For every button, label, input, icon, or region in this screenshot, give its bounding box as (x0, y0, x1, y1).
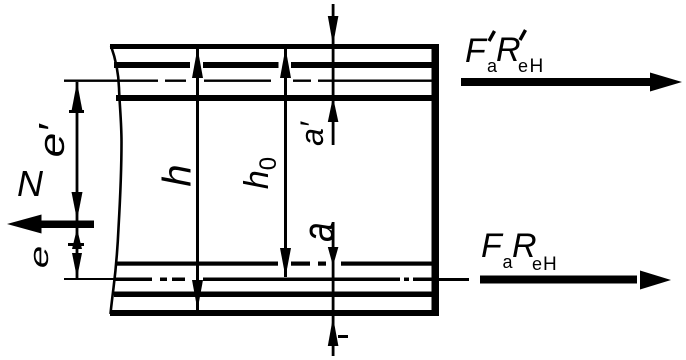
dimension h upper arrowhead (192, 48, 203, 78)
bottom reinforcement bar line 1 (64, 278, 115, 280)
beam top edge (110, 44, 439, 49)
force N application bar (42, 221, 95, 229)
dimension e/e' line (76, 82, 79, 278)
svg-text:e: e (25, 246, 54, 269)
stray tick near a arrow (338, 335, 348, 338)
e' upper arrow base tick (69, 110, 84, 113)
beam bottom edge (110, 310, 439, 316)
dimension h lower arrowhead (192, 280, 203, 310)
beam left break line (wavy) (111, 46, 122, 314)
dimension h0 upper arrowhead (280, 48, 291, 78)
dimension a lower arrowhead (pointing up to bottom edge) (328, 317, 339, 346)
e' upper arrowhead (up to top axis) (72, 82, 83, 111)
bottom reinforcement axis (dash-dot) (115, 262, 278, 266)
svg-text:e: e (532, 254, 542, 274)
dimension a' line (332, 4, 335, 145)
top reinforcement bar line 2 (116, 95, 432, 101)
svg-text:h: h (156, 164, 200, 186)
force N arrowhead (pointing left) (7, 215, 42, 234)
top force arrow shaft (461, 78, 650, 86)
svg-text:N: N (17, 163, 44, 204)
dimension a upper arrowhead (pointing down to axis) (328, 247, 339, 266)
top reinforcement axis (dash-dot) (64, 80, 158, 82)
dimension h line (196, 48, 199, 310)
svg-text:F: F (481, 227, 504, 265)
dimension h0 lower arrowhead (280, 248, 291, 277)
bottom force arrow shaft (480, 276, 637, 284)
e' lower arrowhead (down to N bar) (72, 192, 83, 220)
svg-text:e′: e′ (32, 123, 72, 157)
bottom reinforcement bar line 2 (114, 292, 432, 298)
dimension a' upper arrowhead (pointing down to top edge) (328, 16, 339, 45)
e upper arrowhead (up to N bar) (72, 229, 82, 250)
e upper arrow base tick (68, 243, 84, 246)
svg-text:a′: a′ (294, 121, 330, 146)
svg-text:e: e (518, 56, 528, 76)
e lower arrowhead (down to bottom axis) (72, 253, 82, 278)
beam right edge (432, 44, 440, 316)
bottom force arrowhead (640, 271, 671, 290)
svg-text:a: a (293, 222, 343, 241)
dimension a' lower arrowhead (pointing up) (328, 97, 339, 122)
svg-text:F: F (465, 32, 488, 70)
dimension a line (332, 222, 335, 356)
svg-text:R: R (496, 31, 521, 69)
bottom force extension line (439, 278, 469, 281)
svg-text:H: H (543, 254, 557, 275)
top reinforcement bar line 1 (114, 62, 190, 68)
svg-text:H: H (530, 56, 544, 77)
dimension h0 line (284, 48, 287, 277)
top force arrowhead (650, 73, 682, 92)
